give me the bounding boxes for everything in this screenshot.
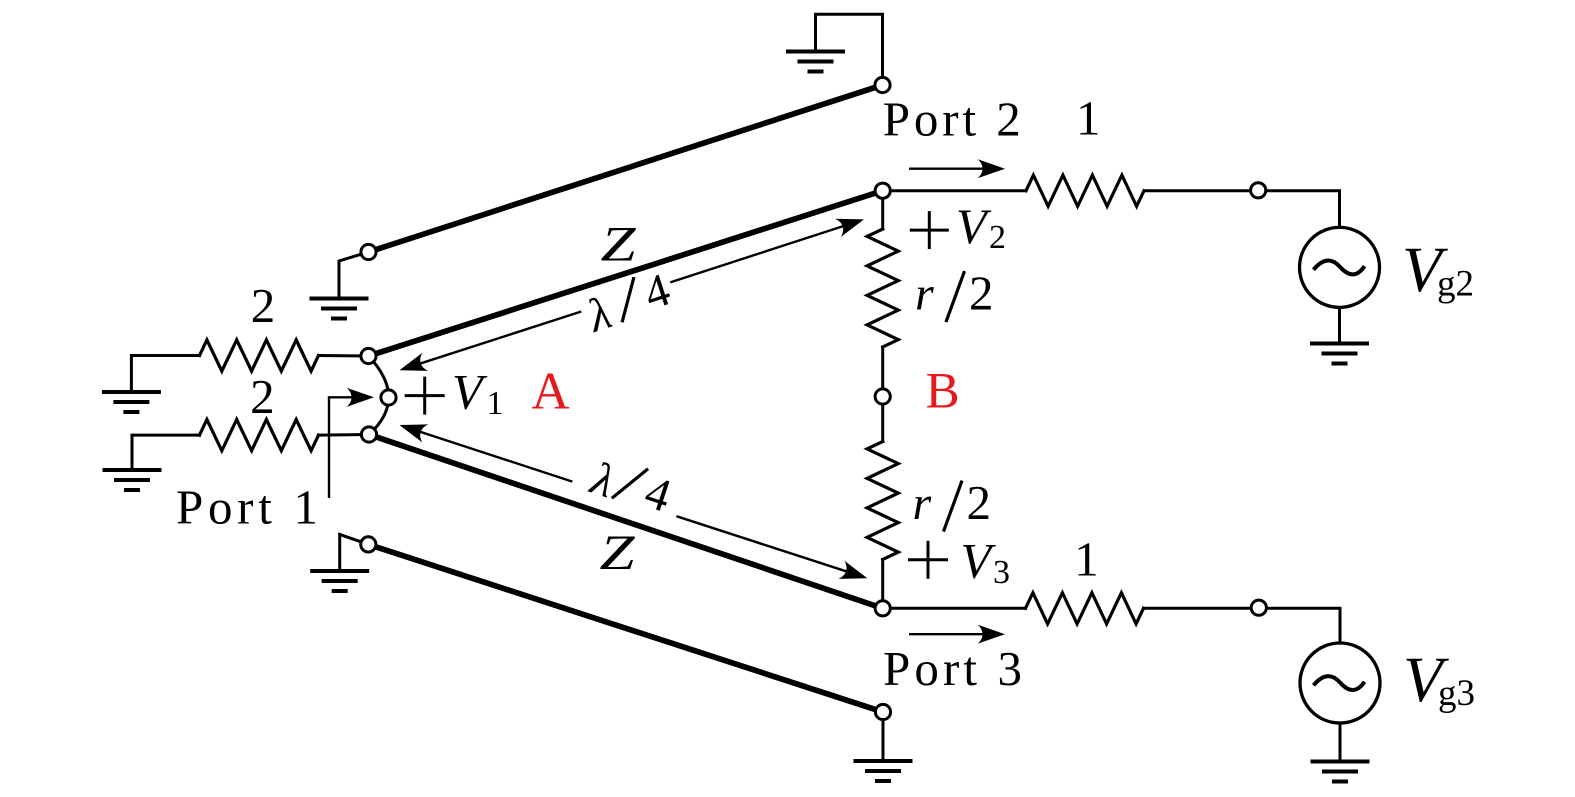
label r/2 lower (913, 475, 992, 530)
wire r/2 to node B (881, 347, 884, 397)
wire upper-left TL node to ground (339, 252, 369, 297)
label r/2 upper (915, 265, 994, 320)
wire Vg3 to ground (1339, 723, 1342, 760)
dimension arrow lambda/4 upper (396, 210, 867, 379)
node A bottom (361, 427, 376, 442)
svg-text:Z: Z (601, 216, 637, 272)
wire node B to lower r/2 (881, 397, 884, 442)
dimension arrow lambda/4 lower (396, 416, 870, 588)
resistor r/2 upper (867, 229, 898, 347)
node Port 2 (875, 183, 890, 198)
node A middle Port 1 (381, 390, 396, 405)
svg-text:Port 1: Port 1 (176, 480, 318, 535)
ground bottom middle (854, 761, 913, 781)
wire resistor 2 bottom to node (319, 433, 370, 437)
ground under Vg3 (1311, 762, 1370, 782)
node before Vg2 (1251, 183, 1266, 198)
svg-text:1: 1 (1074, 531, 1099, 586)
svg-text:1: 1 (487, 385, 504, 422)
transmission line upper signal conductor (369, 191, 883, 356)
wire port3 node to resistor 1 (883, 607, 1026, 610)
wire node to top ground (816, 14, 883, 85)
svg-text:Port 3: Port 3 (883, 641, 1022, 696)
wire ground to resistor 2 bottom (132, 435, 200, 468)
resistor R 2 upper left (200, 340, 319, 371)
wire lower-left TL node to ground (340, 534, 369, 569)
transmission line upper ground conductor (369, 85, 883, 252)
wire resistor 1 to Vg3 (1144, 608, 1341, 643)
transmission line lower signal conductor (369, 435, 883, 609)
svg-text:2: 2 (989, 219, 1006, 256)
arrow Port 3 direction (909, 625, 1005, 644)
transmission line lower ground conductor (368, 544, 883, 712)
node A top (361, 348, 376, 363)
svg-text:Port 2: Port 2 (883, 92, 1021, 147)
label +V2 (911, 198, 1006, 256)
port curve arc at node A (369, 356, 389, 435)
label lambda/4 upper (579, 264, 678, 344)
svg-text:2: 2 (251, 278, 276, 333)
source Vg3 (1300, 643, 1380, 723)
label +V1 (406, 364, 503, 423)
wire lower r/2 to port3 node (881, 560, 884, 609)
arrow Port 2 direction (909, 159, 1005, 178)
source Vg2 (1300, 227, 1380, 307)
wire ground to resistor 2 top (131, 356, 199, 391)
node B (875, 389, 890, 404)
wire Vg2 to ground (1338, 307, 1341, 341)
resistor 1 at port2 (1026, 175, 1144, 206)
arrow Port 1 pointer (329, 388, 374, 498)
svg-text:1: 1 (1076, 91, 1101, 146)
wire resistor 1 to Vg2 (1144, 191, 1340, 228)
wire port2 node to resistor 1 (883, 189, 1026, 192)
node Port 3 (875, 601, 890, 616)
wire port2 node down to r/2 (881, 191, 884, 229)
label +V3 (910, 533, 1011, 591)
node TL lower ground right (875, 704, 890, 719)
resistor 1 at port3 (1026, 593, 1144, 624)
node TL upper ground left (361, 244, 376, 259)
svg-text:2: 2 (250, 369, 275, 424)
svg-text:r: r (913, 477, 932, 530)
wire resistor 2 top to node (319, 354, 369, 358)
ground at resistor 2 bottom (103, 470, 162, 490)
wire lower-right TL node to ground (882, 712, 885, 759)
svg-text:A: A (531, 363, 569, 421)
resistor r/2 lower (867, 442, 898, 560)
ground top middle (786, 52, 845, 72)
label lambda/4 lower (583, 448, 677, 526)
ground under Vg2 (1310, 344, 1369, 364)
node TL lower ground left (361, 537, 376, 552)
node TL upper ground right (875, 77, 890, 92)
ground lower-left TL (310, 571, 369, 591)
svg-text:Z: Z (600, 524, 636, 580)
svg-text:2: 2 (969, 265, 994, 320)
ground at resistor 2 top (102, 392, 161, 412)
svg-text:g3: g3 (1438, 673, 1475, 714)
svg-text:g2: g2 (1437, 263, 1474, 304)
svg-text:B: B (926, 364, 960, 420)
svg-text:r: r (915, 267, 934, 320)
node before Vg3 (1251, 600, 1266, 615)
ground upper-left TL (310, 299, 369, 319)
svg-text:2: 2 (967, 475, 992, 530)
resistor R 2 lower left (200, 420, 319, 451)
svg-text:3: 3 (993, 554, 1010, 591)
